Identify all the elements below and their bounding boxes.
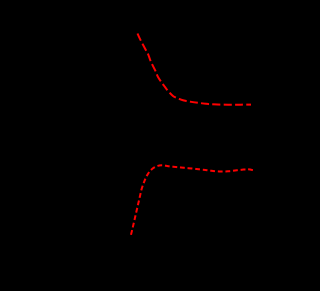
curve: lower branch (red dashed) [131,165,253,235]
curve: upper branch (red dashed) [138,34,252,105]
